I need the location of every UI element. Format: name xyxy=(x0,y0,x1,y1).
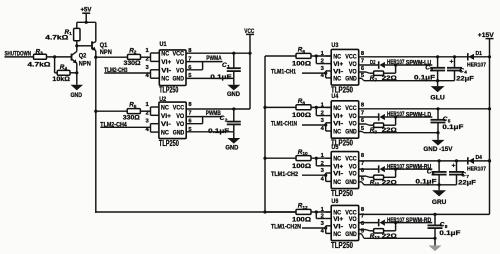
svg-text:VO: VO xyxy=(349,113,357,120)
svg-text:330Ω: 330Ω xyxy=(123,115,140,122)
svg-text:NPN: NPN xyxy=(79,61,91,68)
svg-text:3: 3 xyxy=(40,51,43,57)
svg-text:VO: VO xyxy=(176,59,184,66)
svg-text:100Ω: 100Ω xyxy=(292,163,311,170)
svg-text:HER107: HER107 xyxy=(467,167,486,173)
svg-text:Q1: Q1 xyxy=(100,42,108,49)
svg-text:GND: GND xyxy=(71,92,83,99)
svg-text:U1: U1 xyxy=(160,41,167,48)
svg-text:330Ω: 330Ω xyxy=(124,60,141,67)
svg-text:7: 7 xyxy=(188,110,191,116)
svg-text:VI-: VI- xyxy=(333,223,343,230)
svg-text:TLP250: TLP250 xyxy=(331,189,354,198)
svg-text:1: 1 xyxy=(69,31,72,37)
svg-text:100Ω: 100Ω xyxy=(292,112,311,119)
svg-text:VI-: VI- xyxy=(333,68,343,75)
svg-text:D1: D1 xyxy=(476,51,483,57)
svg-text:VI+: VI+ xyxy=(333,216,343,223)
svg-text:NC: NC xyxy=(161,51,169,58)
svg-text:3: 3 xyxy=(430,67,433,73)
svg-text:NC: NC xyxy=(161,130,169,137)
svg-text:GND: GND xyxy=(173,130,185,137)
svg-text:2: 2 xyxy=(225,118,228,124)
svg-text:TLM1-CH2N: TLM1-CH2N xyxy=(271,225,301,231)
svg-text:U4: U4 xyxy=(331,93,338,100)
svg-text:VO: VO xyxy=(176,121,184,128)
svg-text:VI+: VI+ xyxy=(333,113,343,120)
svg-text:VO: VO xyxy=(349,163,357,170)
svg-text:0.1μF: 0.1μF xyxy=(442,124,463,131)
svg-text:NPN: NPN xyxy=(100,49,112,56)
svg-text:2: 2 xyxy=(134,50,137,56)
svg-text:0.1μF: 0.1μF xyxy=(210,74,231,81)
svg-text:100Ω: 100Ω xyxy=(292,217,311,224)
svg-text:22μF: 22μF xyxy=(458,180,476,187)
svg-text:VCC: VCC xyxy=(345,105,357,112)
svg-text:D4: D4 xyxy=(476,155,483,161)
svg-text:7: 7 xyxy=(361,111,364,117)
svg-text:VI+: VI+ xyxy=(161,113,171,120)
svg-text:TLP250: TLP250 xyxy=(331,241,354,250)
svg-text:SPWM-LD: SPWM-LD xyxy=(406,112,432,118)
svg-text:4.7kΩ: 4.7kΩ xyxy=(45,35,68,42)
svg-text:6: 6 xyxy=(432,171,435,177)
svg-text:GND: GND xyxy=(227,91,241,98)
svg-text:VO: VO xyxy=(349,61,357,68)
svg-text:GND: GND xyxy=(345,75,357,82)
svg-text:+: + xyxy=(452,163,456,170)
svg-text:0.1μF: 0.1μF xyxy=(414,74,435,81)
svg-text:NC: NC xyxy=(161,105,169,112)
svg-text:VI+: VI+ xyxy=(333,61,343,68)
svg-text:VCC: VCC xyxy=(345,156,357,163)
svg-text:TLM1-CH1N: TLM1-CH1N xyxy=(271,122,297,128)
svg-text:7: 7 xyxy=(361,161,364,167)
svg-text:VO: VO xyxy=(349,120,357,127)
svg-text:GND -15V: GND -15V xyxy=(423,146,453,153)
svg-text:VCC: VCC xyxy=(173,51,185,58)
svg-text:TLP250: TLP250 xyxy=(159,85,178,94)
svg-text:12: 12 xyxy=(302,205,308,211)
svg-text:4.7kΩ: 4.7kΩ xyxy=(28,62,51,69)
svg-text:Q2: Q2 xyxy=(79,53,87,60)
svg-text:NC: NC xyxy=(333,105,341,112)
svg-text:NC: NC xyxy=(333,179,341,186)
svg-text:5: 5 xyxy=(134,104,137,110)
svg-text:HER107: HER107 xyxy=(387,60,405,66)
svg-text:GRU: GRU xyxy=(432,199,447,206)
svg-text:VCC: VCC xyxy=(173,105,185,112)
svg-text:VCC: VCC xyxy=(345,54,357,61)
svg-text:D2: D2 xyxy=(370,60,376,66)
svg-text:PWMA: PWMA xyxy=(206,55,222,62)
svg-text:VI+: VI+ xyxy=(333,163,343,170)
svg-text:VO: VO xyxy=(349,171,357,178)
svg-text:NC: NC xyxy=(333,231,341,238)
svg-text:+: + xyxy=(450,59,454,66)
svg-text:TLP250: TLP250 xyxy=(159,139,179,148)
svg-text:VO: VO xyxy=(176,113,184,120)
svg-text:U6: U6 xyxy=(331,198,338,205)
svg-text:6: 6 xyxy=(302,49,305,55)
svg-text:VI-: VI- xyxy=(161,121,171,128)
svg-text:GND: GND xyxy=(345,129,357,136)
svg-text:10kΩ: 10kΩ xyxy=(52,76,70,83)
svg-text:22μF: 22μF xyxy=(456,75,474,82)
svg-text:HER107: HER107 xyxy=(467,63,486,69)
svg-text:10: 10 xyxy=(302,151,308,157)
svg-text:GND: GND xyxy=(345,179,357,186)
svg-text:VI-: VI- xyxy=(333,120,343,127)
svg-text:100Ω: 100Ω xyxy=(292,61,311,68)
svg-text:VO: VO xyxy=(176,67,184,74)
svg-text:U5: U5 xyxy=(331,144,338,151)
svg-text:HER107: HER107 xyxy=(387,218,405,224)
svg-text:GLU: GLU xyxy=(430,95,445,102)
svg-text:GND: GND xyxy=(345,231,357,238)
svg-text:GND: GND xyxy=(173,76,185,83)
svg-text:U2: U2 xyxy=(159,96,166,103)
svg-text:VO: VO xyxy=(349,216,357,223)
svg-text:+5V: +5V xyxy=(81,6,93,13)
svg-text:NC: NC xyxy=(161,76,169,83)
svg-text:VO: VO xyxy=(349,68,357,75)
svg-text:GND: GND xyxy=(225,144,239,151)
svg-text:0.1μF: 0.1μF xyxy=(416,179,437,186)
svg-text:8: 8 xyxy=(302,100,305,106)
svg-text:VO: VO xyxy=(349,223,357,230)
svg-text:TLM1-CH1: TLM1-CH1 xyxy=(271,70,297,76)
svg-text:NC: NC xyxy=(333,75,341,82)
svg-text:HER107: HER107 xyxy=(387,164,405,170)
svg-text:TLM1-CH2: TLM1-CH2 xyxy=(271,172,299,178)
svg-text:NC: NC xyxy=(333,156,341,163)
svg-text:7: 7 xyxy=(361,59,364,65)
svg-text:NC: NC xyxy=(333,129,341,136)
svg-text:VI-: VI- xyxy=(333,171,343,178)
svg-text:VI+: VI+ xyxy=(161,59,171,66)
svg-text:4: 4 xyxy=(64,66,67,72)
svg-text:VI-: VI- xyxy=(161,67,171,74)
svg-text:0.1μF: 0.1μF xyxy=(439,230,460,237)
svg-text:U3: U3 xyxy=(331,42,338,49)
svg-text:NC: NC xyxy=(333,54,341,61)
svg-text:1: 1 xyxy=(227,64,230,70)
svg-text:SPWM-RD: SPWM-RD xyxy=(406,218,432,224)
svg-text:HER107: HER107 xyxy=(387,112,405,118)
